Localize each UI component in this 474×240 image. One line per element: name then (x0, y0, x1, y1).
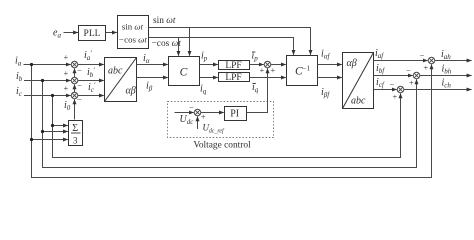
wire Udc-ref input (197, 116, 199, 129)
svg-text:+: + (260, 65, 265, 75)
wire ia input (24, 64, 71, 66)
wire i0 feed S2 to S1 (74, 68, 76, 77)
svg-text:+: + (409, 78, 414, 88)
junction dot ic tap (51, 94, 54, 97)
svg-text:−: − (77, 81, 82, 91)
svg-text:Voltage control: Voltage control (193, 141, 251, 151)
C transform block (169, 57, 200, 86)
summing junction S5 voltage (194, 109, 201, 116)
junction dot ic sigma branch (51, 124, 54, 127)
junction dot ia tap (30, 63, 33, 66)
wire iah output (435, 60, 472, 62)
summing junction S2 (71, 77, 78, 84)
wire i0 feed to S3 (74, 99, 76, 119)
svg-text:abc: abc (108, 66, 123, 77)
svg-text:αβ: αβ (126, 86, 136, 97)
wire sin(wt) net (149, 28, 311, 55)
abc to alpha-beta transform block (105, 58, 137, 102)
junction dot ia sigma branch (30, 138, 33, 141)
svg-text:sin ωt: sin ωt (122, 22, 144, 32)
svg-text:−: − (189, 102, 194, 112)
PLL U1 box (79, 26, 106, 41)
wire ib tap to sigma block (43, 131, 68, 133)
wire i-alpha (137, 64, 168, 66)
sigma-over-3 averaging block (69, 121, 83, 146)
summing junction J2 (413, 72, 420, 79)
wire Udc input (175, 112, 194, 114)
wire -cos(wt) branch into C (178, 38, 180, 56)
summing junction S1 (71, 61, 78, 68)
wire i-beta (137, 77, 168, 79)
wire S1 output to abc block (78, 64, 104, 66)
overbar ip-bar (252, 51, 255, 53)
wire iaf to junction J1 (374, 60, 428, 62)
alpha-beta to abc transform block (343, 53, 374, 109)
sigma fraction bar (71, 132, 81, 134)
svg-text:+: + (201, 111, 206, 121)
svg-text:+: + (64, 68, 69, 78)
wire ich output (404, 89, 472, 91)
svg-text:−: − (77, 65, 82, 75)
LPF1 box (219, 61, 250, 70)
svg-text:−: − (390, 79, 395, 89)
PI controller box (225, 107, 247, 121)
wire iq-bar LPF2 to C-inverse (250, 77, 286, 79)
C-inverse block (287, 56, 318, 86)
junction dot ib sigma branch (41, 130, 44, 133)
wire ibf to junction J2 (374, 75, 413, 77)
svg-text:−: − (420, 50, 425, 60)
svg-text:abc: abc (351, 96, 366, 107)
overbar iq-bar (253, 82, 256, 84)
wire ic input (24, 95, 71, 97)
wire S5 to PI (201, 112, 224, 114)
sin-cos generator box (118, 16, 149, 49)
wire S3 output to abc block (78, 95, 104, 97)
svg-text:3: 3 (73, 136, 78, 146)
svg-text:C: C (180, 67, 188, 79)
svg-text:−cos ωt: −cos ωt (118, 35, 147, 45)
svg-text:+: + (64, 83, 69, 93)
wire ic tap to sigma block (53, 125, 68, 127)
svg-text:+: + (424, 63, 429, 73)
wire sin(wt) branch into C (189, 28, 191, 56)
summing junction S3 (71, 92, 78, 99)
wire ia feedback loop to J1 (32, 64, 432, 177)
svg-text:−cos ωt: −cos ωt (152, 39, 182, 49)
svg-text:+: + (64, 52, 69, 62)
wire icf to junction J3 (374, 89, 397, 91)
summing junction S4 (264, 61, 271, 68)
wire PLL to sin-cos generator (106, 32, 117, 34)
wire i0 feed S3 to S2 (74, 84, 76, 92)
wire i-alpha-f (318, 64, 342, 66)
wire ip-bar LPF1 to summing junction S4 (250, 64, 264, 66)
wire i-beta-f (318, 77, 342, 79)
wire ib feedback loop to J2 (43, 79, 417, 167)
svg-text:sin ωt: sin ωt (153, 16, 176, 26)
svg-text:+: + (393, 92, 398, 102)
wire S4 to C-inverse (271, 64, 286, 66)
summing junction J3 (397, 86, 404, 93)
wire ic feedback loop to J3 (53, 93, 401, 157)
svg-text:+: + (271, 65, 276, 75)
svg-text:PI: PI (230, 109, 239, 120)
LPF2 box (219, 73, 250, 82)
svg-text:−: − (77, 94, 82, 104)
voltage control dotted box (168, 102, 274, 138)
svg-text:LPF: LPF (225, 61, 241, 71)
wire PI output up to S4 (247, 68, 268, 112)
wire S2 output to abc block (78, 80, 104, 82)
svg-text:LPF: LPF (225, 73, 241, 83)
wire ib input (24, 80, 71, 82)
svg-text:PLL: PLL (84, 29, 101, 39)
svg-text:αβ: αβ (347, 58, 357, 69)
node ea input wire (64, 32, 79, 34)
wire ip C to LPF1 (200, 64, 218, 66)
wire ia tap to sigma block (32, 139, 68, 141)
wire ibh output (420, 75, 472, 77)
summing junction J1 (428, 57, 435, 64)
wire iq C to LPF2 (200, 77, 218, 79)
junction dot ib tap (41, 79, 44, 82)
wire -cos(wt) net (149, 38, 294, 55)
svg-text:Σ: Σ (72, 123, 78, 134)
svg-text:−: − (406, 65, 411, 75)
